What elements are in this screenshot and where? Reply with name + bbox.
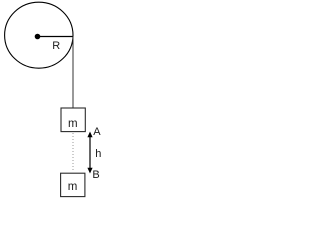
svg-text:B: B bbox=[92, 169, 99, 181]
svg-text:R: R bbox=[52, 40, 60, 52]
svg-text:m: m bbox=[68, 118, 78, 130]
svg-text:m: m bbox=[68, 181, 78, 193]
svg-text:A: A bbox=[93, 126, 101, 138]
svg-text:h: h bbox=[95, 148, 101, 160]
